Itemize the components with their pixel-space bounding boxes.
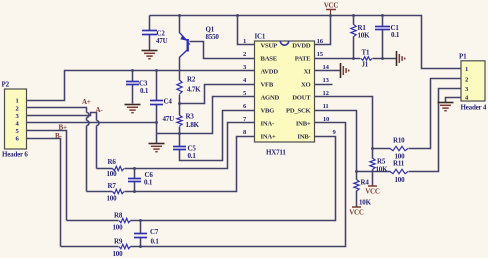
transistor Q1 xyxy=(179,32,190,57)
wire C2 top lead xyxy=(149,16,151,31)
svg-text:BASE: BASE xyxy=(261,56,278,63)
capacitor C6 xyxy=(128,179,141,182)
svg-text:PD_SCK: PD_SCK xyxy=(286,108,312,115)
wire R2 to R3 xyxy=(179,95,181,116)
svg-text:INA+: INA+ xyxy=(261,134,276,141)
svg-text:VCC: VCC xyxy=(365,188,380,196)
wire AVDD line P2.1 to pin3 xyxy=(27,71,255,101)
wire Q1 emitter drop xyxy=(179,16,181,33)
wire R8 right to pin9 INB- xyxy=(131,137,336,221)
power VCC top xyxy=(324,2,339,10)
wire P2.2 net A+ to R7 xyxy=(27,108,87,113)
svg-text:1: 1 xyxy=(465,66,468,73)
wire C2 to ground xyxy=(149,35,151,51)
capacitor C5 xyxy=(173,147,186,150)
svg-text:XO: XO xyxy=(301,82,311,89)
wire C5 bottom to pin6 VBG xyxy=(180,111,255,161)
junction Q1 emitter on rail xyxy=(178,14,181,17)
svg-text:VBG: VBG xyxy=(261,108,275,115)
svg-text:14: 14 xyxy=(322,64,329,71)
wire P2.5 net B+ to R8 xyxy=(27,131,67,221)
wire Q1 collector to R2 xyxy=(179,58,181,81)
svg-text:8550: 8550 xyxy=(206,33,220,41)
wire XI pin14 to ground xyxy=(315,70,341,72)
capacitor C2 xyxy=(142,31,157,35)
connector P1 Header 4 body xyxy=(461,61,485,101)
wire J1 to ground xyxy=(373,58,397,60)
wire C3 to ground xyxy=(132,85,134,104)
wire R1 bottom lead xyxy=(353,37,355,59)
wire P2.4 line to C4 lead xyxy=(27,122,157,124)
wire C1 top lead xyxy=(382,16,384,27)
svg-text:100: 100 xyxy=(113,224,124,232)
junction R10 on DOUT drop xyxy=(371,147,374,150)
connector P2 Header 6 body xyxy=(5,89,27,149)
svg-text:47U: 47U xyxy=(156,37,168,45)
svg-text:12: 12 xyxy=(322,90,329,97)
wire R7 right to pin8 INA+ xyxy=(125,137,255,192)
wire PATE pin15 line xyxy=(315,58,361,60)
wire R6 right to pin7 INA- xyxy=(125,123,255,169)
wire C3 top lead xyxy=(132,71,134,82)
svg-text:A+: A+ xyxy=(82,98,91,106)
junction C3 on AVDD line xyxy=(131,69,134,72)
resistor R8 xyxy=(119,218,131,222)
resistor R2 xyxy=(177,80,182,94)
wire DVDD pin16 to rail xyxy=(315,16,331,45)
svg-text:16: 16 xyxy=(317,38,324,45)
svg-text:DOUT: DOUT xyxy=(292,95,311,102)
wire R6 line xyxy=(97,168,113,170)
svg-text:4.7K: 4.7K xyxy=(187,86,201,94)
svg-text:1.8K: 1.8K xyxy=(186,121,200,129)
wire VFB pin4 to R2R3 node xyxy=(180,85,255,104)
svg-text:INB+: INB+ xyxy=(296,121,311,128)
wire C7 bottom lead xyxy=(140,238,142,247)
svg-text:A-: A- xyxy=(96,106,104,114)
ground under C2 xyxy=(142,51,158,59)
wire C5 top lead xyxy=(179,134,181,147)
junction C6 top on R6 line xyxy=(133,167,136,170)
wire R9 right to pin10 INB+ xyxy=(131,123,346,247)
svg-text:10: 10 xyxy=(323,116,330,123)
svg-text:1: 1 xyxy=(15,98,18,105)
junction R1 on rail xyxy=(352,14,355,17)
resistor R3 xyxy=(177,115,182,126)
svg-text:P1: P1 xyxy=(459,53,467,61)
hop arc A+ over A- line xyxy=(87,113,90,118)
svg-text:Header 4: Header 4 xyxy=(461,104,487,112)
svg-text:R11: R11 xyxy=(393,160,405,168)
resistor R7 xyxy=(113,189,125,193)
wire R10 line xyxy=(373,148,391,150)
svg-text:XI: XI xyxy=(304,69,312,76)
svg-text:0.1: 0.1 xyxy=(144,179,153,187)
jumper J1 xyxy=(361,57,372,61)
junction AGND node at R3-C5 xyxy=(178,132,181,135)
ground at PATE/J1 xyxy=(397,51,405,66)
wire XO pin13 stub xyxy=(315,84,333,86)
svg-text:R6: R6 xyxy=(108,158,117,166)
wire R10 right to P1.2 xyxy=(409,79,461,149)
junction VFB at R2-R3 node xyxy=(178,102,181,105)
junction VCC/DVDD on rail xyxy=(329,14,332,17)
wire R11 right to P1.3 xyxy=(409,89,461,172)
svg-text:AGND: AGND xyxy=(261,95,280,102)
resistor R4 xyxy=(354,180,359,192)
svg-text:HX711: HX711 xyxy=(266,149,286,157)
junction C1 on rail xyxy=(381,14,384,17)
hop arc A+ over P2.4 line xyxy=(87,121,90,126)
ground under C3 xyxy=(125,105,141,113)
svg-text:R3: R3 xyxy=(186,113,195,121)
junction R1 bottom xyxy=(352,57,355,60)
wire P2.3 net A- jog xyxy=(27,113,97,121)
svg-text:10K: 10K xyxy=(358,32,371,40)
svg-text:DVDD: DVDD xyxy=(292,43,311,50)
wire Q1 base to IC pin2 xyxy=(190,42,255,59)
svg-text:100: 100 xyxy=(107,195,118,203)
svg-text:10K: 10K xyxy=(376,166,389,174)
ground under P1 pin4 xyxy=(438,103,454,111)
svg-text:15: 15 xyxy=(317,51,324,58)
wire R7 line xyxy=(87,191,113,193)
junction C4 on AVDD line xyxy=(155,69,158,72)
svg-text:R2: R2 xyxy=(187,76,196,84)
svg-text:VFB: VFB xyxy=(261,82,274,89)
svg-text:J1: J1 xyxy=(362,61,369,69)
wire R11 line xyxy=(357,171,391,173)
svg-text:VSUP: VSUP xyxy=(261,43,278,50)
wire C4 ground lead xyxy=(156,134,158,144)
ground at XI pin14 xyxy=(341,63,349,78)
svg-text:100: 100 xyxy=(113,250,124,258)
wire C6 bottom lead xyxy=(134,182,136,192)
svg-text:R7: R7 xyxy=(108,182,117,190)
junction C7 bottom on R9 line xyxy=(139,245,142,248)
junction C7 top on R8 line xyxy=(139,219,142,222)
svg-text:Header 6: Header 6 xyxy=(2,151,28,159)
svg-text:R5: R5 xyxy=(377,158,386,166)
resistor R6 xyxy=(113,166,125,170)
wire R1 top lead xyxy=(353,16,355,25)
svg-text:10K: 10K xyxy=(359,199,372,207)
wire P1.4 to ground xyxy=(446,98,461,103)
svg-text:0.1: 0.1 xyxy=(151,238,160,246)
svg-text:B-: B- xyxy=(55,132,62,140)
svg-text:R10: R10 xyxy=(393,137,405,145)
wire R5 bottom to VCC xyxy=(372,170,374,187)
wire PD_SCK pin11 down xyxy=(315,111,357,180)
svg-text:B+: B+ xyxy=(59,124,67,132)
svg-text:11: 11 xyxy=(323,103,329,110)
wire DOUT pin12 down xyxy=(315,97,373,159)
resistor R11 xyxy=(390,169,408,173)
resistor R10 xyxy=(390,146,408,150)
svg-text:T1: T1 xyxy=(362,49,370,57)
svg-text:VCC: VCC xyxy=(324,2,339,10)
wire C7 top lead xyxy=(140,221,142,234)
svg-text:R8: R8 xyxy=(114,212,123,220)
capacitor C7 xyxy=(134,234,147,238)
svg-text:C4: C4 xyxy=(164,98,173,106)
wire R4 bottom to VCC xyxy=(356,191,358,207)
svg-text:IC1: IC1 xyxy=(255,33,266,41)
svg-text:0.1: 0.1 xyxy=(188,152,197,160)
svg-text:PATE: PATE xyxy=(295,56,312,63)
svg-text:0.1: 0.1 xyxy=(391,31,400,39)
junction C1 bottom xyxy=(381,57,384,60)
wire R3 to AGND node xyxy=(179,127,181,134)
svg-text:INA-: INA- xyxy=(261,121,275,128)
svg-text:R4: R4 xyxy=(361,179,370,187)
hop arc A- over P2.4 line xyxy=(97,121,100,126)
resistor R1 xyxy=(351,24,356,36)
svg-text:0.1: 0.1 xyxy=(140,87,149,95)
svg-text:47U: 47U xyxy=(163,115,175,123)
junction C6 bottom on R7 line xyxy=(133,190,136,193)
svg-text:13: 13 xyxy=(322,77,329,84)
svg-text:P2: P2 xyxy=(2,81,10,89)
power VCC under R4 xyxy=(349,207,364,217)
wire C4 top lead xyxy=(156,71,158,101)
capacitor C4 xyxy=(150,101,163,105)
svg-text:AVDD: AVDD xyxy=(261,69,279,76)
svg-text:100: 100 xyxy=(107,170,118,178)
resistor R5 xyxy=(370,158,375,170)
wire C6 top lead xyxy=(134,169,136,179)
wire VSUP pin1 to rail xyxy=(238,16,255,45)
capacitor C3 xyxy=(126,82,139,85)
wire VCC top rail xyxy=(150,16,461,69)
wire A+ vertical lower xyxy=(86,126,88,192)
svg-text:R9: R9 xyxy=(114,238,123,246)
wire R8 line xyxy=(67,220,119,222)
ground under C4 xyxy=(149,144,165,152)
power VCC under R5 xyxy=(365,186,380,196)
svg-text:100: 100 xyxy=(395,176,406,184)
wire A+ vertical hop segment xyxy=(86,118,88,121)
wire P2.6 net B- to R9 xyxy=(27,139,61,247)
svg-text:1: 1 xyxy=(243,38,246,45)
wire R9 line xyxy=(61,246,119,248)
wire C4 bottom lead xyxy=(156,105,158,134)
resistor R9 xyxy=(119,244,131,248)
wire A- vertical to R6 xyxy=(96,126,98,169)
svg-text:VCC: VCC xyxy=(349,209,364,217)
junction P2.4 line on C4 lead xyxy=(155,121,158,124)
wire VCC stub top xyxy=(330,10,332,16)
wire C1 bottom lead xyxy=(382,30,384,59)
svg-text:INB-: INB- xyxy=(297,134,310,141)
capacitor C1 xyxy=(375,27,390,30)
wire AGND node line to pin5 xyxy=(157,97,255,134)
svg-text:C7: C7 xyxy=(150,228,159,236)
op-amp U1 IC1 HX711 body xyxy=(255,41,315,142)
junction R11 on PD_SCK drop xyxy=(355,170,358,173)
junction VSUP on rail xyxy=(236,14,239,17)
